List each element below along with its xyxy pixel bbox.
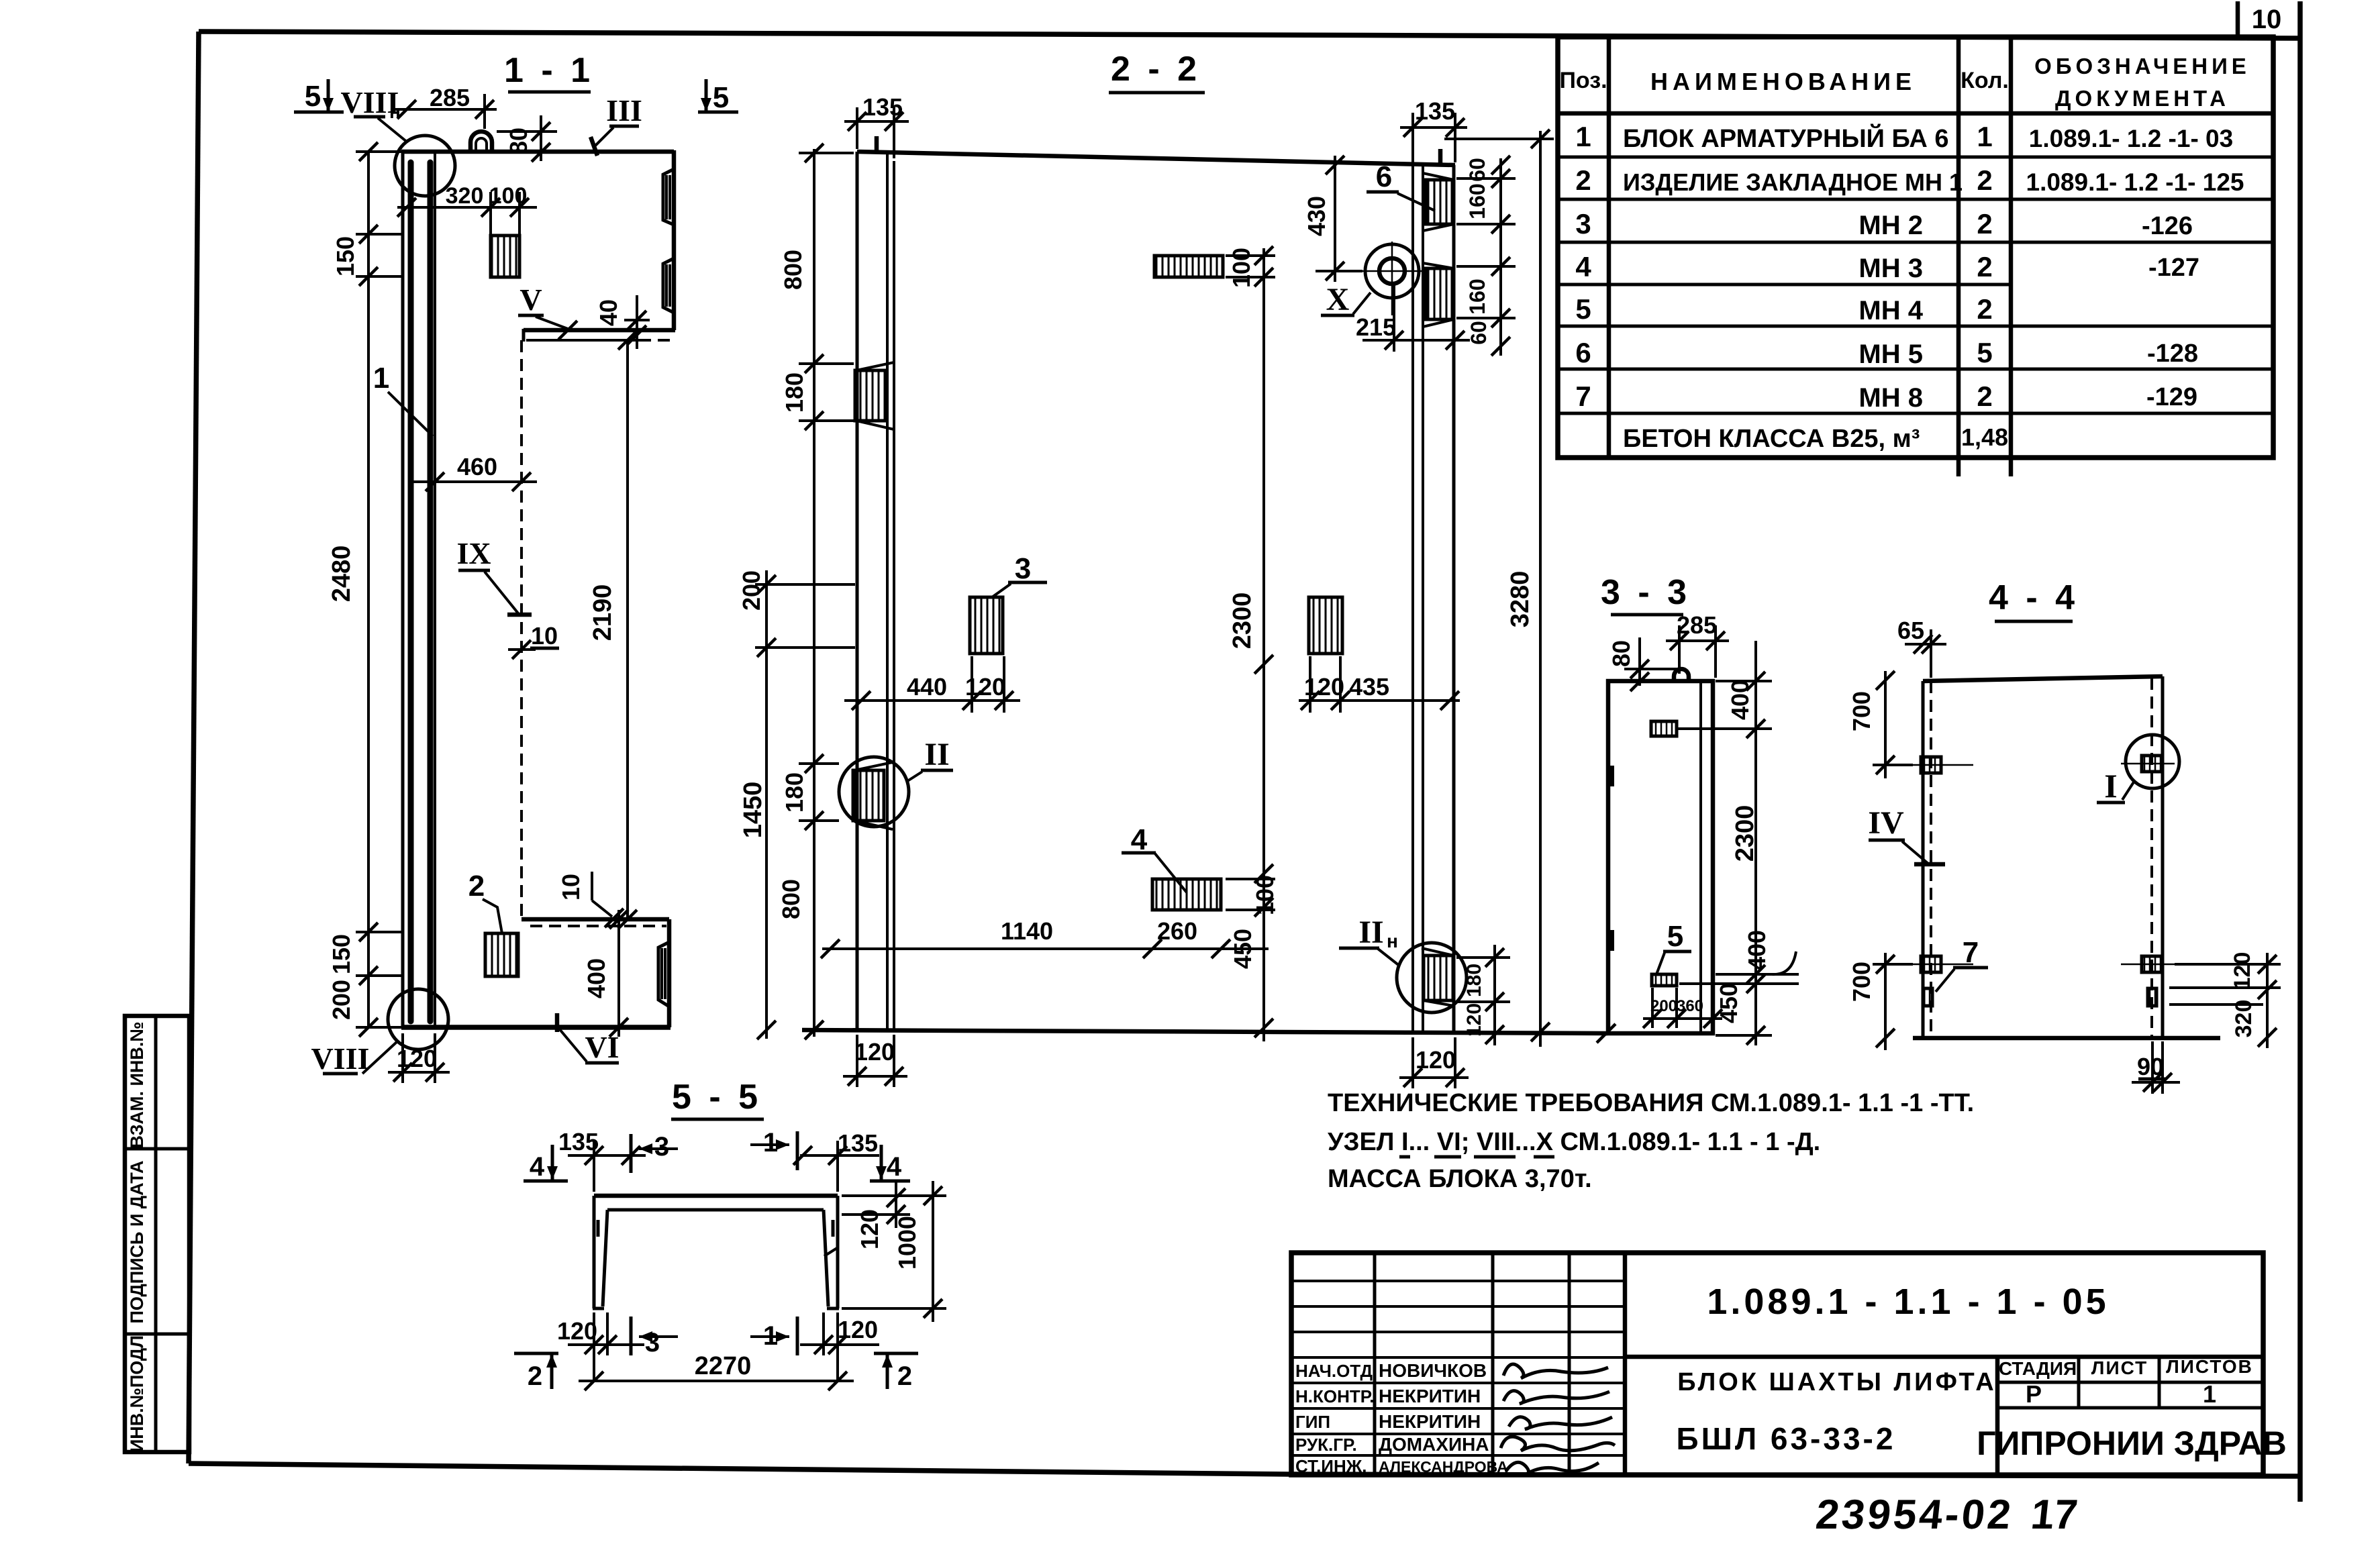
svg-text:65: 65 [1897,617,1924,644]
edge plate mark 3-3 lower [1607,930,1614,951]
section mark 1 top 5-5 [750,1128,797,1170]
hidden line right 4-4 [2150,678,2153,1038]
svg-text:СТАДИЯ: СТАДИЯ [1999,1358,2077,1379]
left wall inner line b [893,161,895,1030]
top edge 2-2 [857,152,1455,165]
svg-text:60: 60 [1467,321,1491,345]
svg-text:РУК.ГР.: РУК.ГР. [1295,1435,1357,1455]
svg-text:II: II [1358,915,1383,950]
dimension 2480 left [328,142,401,1037]
node label IX [456,536,532,615]
right wall outer line right [1452,165,1456,1033]
svg-text:1: 1 [1575,121,1591,152]
left inner dim chain 800 [779,144,854,1037]
svg-text:НОВИЧКОВ: НОВИЧКОВ [1379,1360,1487,1381]
svg-text:БШЛ 63-33-2: БШЛ 63-33-2 [1677,1421,1896,1456]
svg-text:2: 2 [897,1361,912,1391]
svg-text:40: 40 [595,299,622,326]
svg-text:1 - 1: 1 - 1 [504,51,594,90]
svg-text:2300: 2300 [1228,592,1256,650]
svg-text:МН 5: МН 5 [1858,340,1923,369]
bottom block top edge [522,917,669,922]
svg-text:БЛОК ШАХТЫ ЛИФТА: БЛОК ШАХТЫ ЛИФТА [1677,1368,1997,1396]
section mark 3 top 5-5 [631,1132,678,1173]
dimension 90 bottom 4-4 [2132,1041,2180,1094]
lifting loop top [470,132,492,152]
svg-text:120: 120 [1463,1003,1485,1037]
svg-text:VI: VI [585,1030,619,1064]
svg-text:135: 135 [838,1129,878,1157]
embedded plate 3-3 top [1651,721,1677,736]
svg-text:1450: 1450 [739,782,767,839]
label 4 leader [1122,823,1187,892]
node label V [518,282,577,340]
svg-text:НЕКРИТИН: НЕКРИТИН [1379,1411,1481,1432]
svg-text:6: 6 [1575,337,1591,368]
dimension 10 joint upper [508,622,559,659]
node label X [1321,282,1371,317]
svg-text:4 - 4: 4 - 4 [1989,578,2079,617]
svg-text:200: 200 [328,980,355,1020]
right dim chain 3-3: 400 2300 400 450 [1678,641,1799,1045]
svg-text:460: 460 [457,453,497,480]
dimension 80 3-3 [1607,637,1678,691]
anchor small mark lower right [2148,988,2156,1006]
dimension 285 3-3 [1666,611,1729,678]
svg-text:150: 150 [328,934,355,974]
svg-text:МН 3: МН 3 [1858,254,1923,283]
view 1-1 title [504,51,594,92]
embedded plate 3-3 bottom [1652,974,1677,986]
svg-text:4: 4 [887,1152,902,1182]
right wall dim chain 60 160 160 60 [1456,156,1516,356]
dimension 135 top left 5-5 [558,1128,646,1192]
lifting loop 3-3 [1674,669,1689,681]
dimension 100 top middle [1226,246,1275,288]
svg-text:5: 5 [1977,337,1992,368]
svg-text:ДОМАХИНА: ДОМАХИНА [1379,1434,1489,1455]
node label VI bottom [557,1013,619,1064]
svg-text:X: X [1326,282,1350,317]
svg-text:ТЕХНИЧЕСКИЕ ТРЕБОВАНИЯ С: ТЕХНИЧЕСКИЕ ТРЕБОВАНИЯ СМ.1.089.1- 1.1 -… [1328,1089,1974,1117]
hidden joint dashed horizontal top [526,339,673,342]
dimension 120 320 right 4-4 [2169,952,2281,1048]
embedded plate 3 right field [1309,597,1342,654]
top edge 1-1 [401,150,674,154]
long dim line 2300/450 [1228,248,1273,1041]
leg notch right 5-5 [824,1248,837,1256]
node label III top [591,93,642,156]
dimension 120 bottom right 5-5 [800,1312,879,1382]
dimension 1140 260 bottom [821,917,1269,958]
svg-text:120: 120 [854,1038,895,1066]
node label VIII-n top [341,85,407,142]
svg-text:1,48: 1,48 [1961,423,2008,451]
svg-text:IV: IV [1868,805,1904,841]
svg-text:ПОДПИСЬ И ДАТА: ПОДПИСЬ И ДАТА [127,1160,147,1323]
table row 2 [1575,164,2244,196]
svg-text:5: 5 [713,81,729,114]
node circle VIII top [395,136,455,196]
svg-text:285: 285 [430,84,470,111]
svg-text:2: 2 [1977,293,1992,325]
groove notch top block lower [663,258,674,313]
svg-text:БЕТОН КЛАССА В25, м³: БЕТОН КЛАССА В25, м³ [1623,425,1920,453]
svg-text:ЛИСТ: ЛИСТ [2091,1357,2148,1378]
svg-text:10: 10 [557,874,585,900]
svg-text:435: 435 [1349,673,1389,701]
dimension 285 top [395,84,497,129]
title block stage header [1999,1356,2253,1408]
left inner dim 180 [781,364,854,430]
groove notch bottom block [658,942,669,1007]
left outer dim 200 [738,570,855,1039]
left wall inner line a [886,152,889,1030]
svg-text:120: 120 [2230,952,2255,990]
view 4-4 title [1989,578,2079,621]
signature table labels [1295,1361,1377,1476]
svg-text:1000: 1000 [893,1216,921,1270]
svg-text:3: 3 [1015,552,1031,585]
svg-text:АЛЕКСАНДРОВА: АЛЕКСАНДРОВА [1379,1458,1508,1476]
dimension 40 step [595,295,650,349]
svg-text:180: 180 [781,772,808,813]
svg-text:НАЧ.ОТД.: НАЧ.ОТД. [1295,1361,1377,1381]
parts table top right [1558,37,2273,476]
svg-text:ГИП: ГИП [1295,1412,1330,1432]
svg-text:2: 2 [1977,208,1992,240]
embedded plate top middle [1154,256,1223,277]
svg-text:V: V [519,282,542,317]
table row 3 [1575,208,2193,240]
dimension 120 435 right [1299,656,1460,713]
svg-text:МН 4: МН 4 [1858,296,1923,325]
section mark 2 bottom right 5-5 [874,1353,918,1391]
bottom block dashed top [530,925,666,927]
left inner dim 800 lower [777,879,824,1039]
embedded plate 4 bottom middle [1152,879,1221,910]
anchor bolt lower left 4-4 [1910,956,1973,972]
dimension 700 top 4-4 [1848,671,1913,778]
svg-text:ИНВ.№ПОДЛ: ИНВ.№ПОДЛ [127,1335,147,1452]
dimension 150 bottom left [328,923,401,1027]
view 2-2 title [1109,50,1205,93]
dimension 65 4-4 [1897,617,1946,678]
label 7 leader [1936,936,1988,992]
section mark 5 down-left [294,79,344,113]
left outer dim 1450 [739,782,776,1039]
svg-text:3280: 3280 [1506,571,1534,628]
svg-text:III: III [606,93,642,127]
node circle II [839,757,909,827]
svg-text:320: 320 [446,183,484,209]
dimension 135 top right 5-5 [793,1129,879,1192]
svg-text:450: 450 [1715,983,1742,1023]
embedded plate top (pos 3) [491,236,519,277]
dimension 200 bottom left [328,980,401,1027]
svg-text:400: 400 [583,958,610,998]
node label I [2097,767,2134,805]
section mark 4 top left 5-5 [524,1145,568,1182]
svg-text:5 - 5: 5 - 5 [672,1078,762,1117]
top block right edge [672,150,677,330]
section mark 1 bottom 5-5 [750,1317,797,1355]
dim 100 plate4 [1226,875,1279,917]
anchor small mark lower left [1924,988,1932,1006]
svg-text:II: II [924,737,949,772]
svg-text:IX: IX [456,536,491,570]
left inner dim 180 lower [781,754,839,830]
node label II-n [1339,915,1400,966]
svg-text:23954-02: 23954-02 [1814,1492,2016,1538]
table row 4 [1575,251,2199,283]
svg-text:Н.КОНТР.: Н.КОНТР. [1295,1386,1374,1406]
dimension 460 [413,453,537,491]
label 1 rebar leader [373,362,433,436]
rebar line 1 [408,162,414,1021]
top block bottom edge [524,328,675,333]
section mark 3 bottom 5-5 [631,1317,678,1357]
svg-text:2: 2 [1977,380,1992,412]
node circle VIII bottom [388,989,448,1049]
svg-text:ЛИСТОВ: ЛИСТОВ [2166,1356,2253,1377]
dimension 200 360 3-3 [1643,988,1722,1028]
overall dim 3280 [1444,130,1554,1047]
svg-text:2480: 2480 [328,546,356,603]
embedded plates right wall upper pair [1423,173,1454,231]
embedded plate left wall upper [855,362,894,429]
dimension 320 100 [397,183,537,235]
dimension 10 joint lower [557,872,624,927]
dimension 120 below left wall 2-2 [843,1035,907,1087]
svg-text:440: 440 [907,673,947,701]
label 5 leader 3-3 [1656,920,1691,974]
table row 5 [1575,293,1992,325]
svg-text:100: 100 [1228,248,1255,288]
embedded plate right wall bottom (node II-n) [1422,948,1454,1006]
svg-text:Р: Р [2026,1380,2042,1408]
wall inner face line 1-1 [434,152,436,1027]
svg-text:ОБОЗНАЧЕНИЕ: ОБОЗНАЧЕНИЕ [2034,54,2250,79]
svg-text:МН 2: МН 2 [1858,211,1923,240]
svg-text:10: 10 [2252,5,2282,34]
svg-text:1140: 1140 [1001,917,1053,945]
hole circle node X [1361,242,1424,315]
svg-text:120: 120 [557,1317,597,1345]
bottom edge 2-2 [802,1030,1607,1033]
svg-text:1: 1 [763,1128,778,1157]
svg-text:НЕКРИТИН: НЕКРИТИН [1379,1386,1481,1406]
table row 1 [1575,121,2233,153]
svg-text:-128: -128 [2147,340,2198,368]
part outline 4-4 [1913,676,2220,1038]
embedded plate 3 left field [970,597,1003,654]
dimension 1000 right 5-5 [842,1181,946,1322]
svg-text:5: 5 [1667,920,1683,953]
svg-text:3 - 3: 3 - 3 [1601,573,1691,612]
svg-text:БЛОК АРМАТУРНЫЙ БА 6: БЛОК АРМАТУРНЫЙ БА 6 [1623,123,1949,153]
svg-text:2: 2 [1575,164,1591,196]
svg-text:НАИМЕНОВАНИЕ: НАИМЕНОВАНИЕ [1650,68,1916,95]
signature table names [1379,1360,1508,1476]
svg-text:1.089.1- 1.2 -1- 03: 1.089.1- 1.2 -1- 03 [2029,125,2233,152]
step edge small [522,329,526,342]
svg-text:80: 80 [1607,640,1635,667]
svg-text:I: I [2104,767,2117,805]
dim 450 bottom right [1229,929,1273,1037]
svg-text:5: 5 [1575,293,1591,325]
handwritten document number bottom [1814,1492,2080,1538]
embedded plate bottom (pos 2) [485,933,518,976]
svg-text:150: 150 [332,236,359,276]
channel section outline 5-5 [593,1196,839,1308]
svg-text:5: 5 [305,80,321,113]
wall outer face line 1-1 [401,152,405,1027]
embedded plate left wall lower (node II) [853,762,893,829]
svg-text:3: 3 [654,1132,669,1162]
dimension 150 top left [332,221,401,289]
svg-text:10: 10 [531,622,558,650]
svg-text:МН 8: МН 8 [1858,383,1923,413]
dimension 120 bottom left 5-5 [557,1312,644,1382]
leg mark right 5-5 [832,1220,835,1237]
signatures squiggles [1501,1364,1615,1475]
dimension 430 right wall [1303,156,1362,282]
label 2 plate leader [468,870,502,933]
svg-text:2 - 2: 2 - 2 [1111,50,1201,89]
svg-text:Кол.: Кол. [1961,68,2009,93]
svg-text:н: н [1387,931,1398,951]
view 5-5 title [671,1078,764,1119]
svg-text:МАССА БЛОКА 3,70т.: МАССА БЛОКА 3,70т. [1328,1165,1592,1193]
dimension 440 120 left [844,656,1020,713]
title block [1291,1253,2263,1475]
svg-text:1.089.1- 1.2 -1- 125: 1.089.1- 1.2 -1- 125 [2026,168,2244,196]
dimension 2190 right of view [537,331,639,929]
svg-text:ГИПРОНИИ ЗДРАВ: ГИПРОНИИ ЗДРАВ [1977,1425,2287,1462]
dimension 135 right wall [1400,97,1467,162]
svg-text:VIII: VIII [311,1041,370,1076]
svg-text:800: 800 [779,250,807,290]
svg-text:7: 7 [1575,380,1591,412]
svg-text:2: 2 [1977,164,1992,196]
svg-text:2: 2 [1977,251,1992,282]
svg-text:2: 2 [528,1361,542,1391]
bottom block right edge [667,919,672,1027]
node circle II-n [1397,943,1467,1013]
rebar line 2 [428,162,434,1021]
svg-text:3: 3 [1575,208,1591,240]
svg-text:285: 285 [1677,611,1717,639]
svg-text:2270: 2270 [695,1352,752,1380]
svg-text:260: 260 [1157,917,1197,945]
technical notes line 2 [1328,1128,1820,1157]
anchor bolt lower right 4-4 [2121,956,2175,972]
bottom edge 1-1 [401,1025,671,1030]
edge plate mark 3-3 upper [1607,766,1614,786]
dimension 215 [1356,282,1470,352]
svg-text:-127: -127 [2148,254,2199,282]
part outline 3-3 [1608,681,1713,1033]
svg-text:200: 200 [1650,997,1677,1015]
left stamp boxes column [125,1016,189,1452]
svg-text:-126: -126 [2142,212,2193,240]
section mark 4 top right 5-5 [870,1145,910,1182]
dowel bar left wall top [875,136,879,153]
node label II [907,737,953,781]
anchor bolt upper right 4-4 with node I [2121,756,2175,772]
svg-text:ВЗАМ. ИНВ.№: ВЗАМ. ИНВ.№ [127,1021,147,1148]
groove notch top block upper [663,169,674,225]
dimension 400 bottom block [583,910,628,1037]
anchor bolt upper left 4-4 [1910,757,1973,773]
table row 7 [1575,380,2197,413]
hidden joint dashed vertical [520,340,523,919]
section mark 5 down-right [698,79,738,114]
svg-text:6: 6 [1376,160,1392,193]
right wall bottom dims 180 120 [1456,945,1510,1045]
dimension 700 bottom 4-4 [1848,953,1913,1050]
right wall outer line left [1411,165,1414,1033]
svg-text:430: 430 [1303,196,1330,236]
page number box top right [2238,1,2281,38]
svg-text:800: 800 [777,879,805,919]
svg-text:4: 4 [530,1152,545,1182]
svg-text:ДОКУМЕНТА: ДОКУМЕНТА [2055,86,2230,111]
right wall line mid [1422,165,1424,1033]
svg-text:-129: -129 [2146,383,2197,411]
dimension 120 below right wall 2-2 [1399,1037,1469,1088]
svg-text:2: 2 [468,870,485,903]
svg-text:1: 1 [373,362,389,395]
table header [1559,54,2250,111]
svg-text:2190: 2190 [589,584,617,641]
node label VIII bottom [311,1041,397,1076]
label 3 leader [992,552,1047,597]
ticks on bottom edge 2-2 [805,1021,1616,1043]
svg-text:1: 1 [1977,121,1992,152]
svg-text:180: 180 [781,372,808,413]
svg-text:СТ.ИНЖ.: СТ.ИНЖ. [1295,1456,1367,1476]
dimension 80 loop [497,115,557,162]
svg-text:17: 17 [2029,1492,2080,1538]
dimension 120 bottom 1-1 [388,1033,450,1083]
svg-text:160: 160 [1465,183,1489,219]
table row 6 [1575,337,2198,369]
node circle I [2126,735,2179,788]
svg-text:215: 215 [1356,313,1396,341]
svg-text:700: 700 [1848,691,1875,731]
label 6 leader [1367,160,1435,211]
dimension 120 right 5-5 [842,1181,910,1249]
dimension 2270 bottom 5-5 [579,1352,854,1390]
view 3-3 title [1601,573,1691,615]
inner face line 3-3 [1699,681,1702,1033]
section mark 2 bottom left 5-5 [514,1353,558,1391]
svg-text:700: 700 [1848,962,1875,1002]
dimension 135 left wall [844,93,909,158]
leg mark left 5-5 [597,1220,600,1237]
svg-text:ИЗДЕЛИЕ ЗАКЛАДНОЕ МН 1: ИЗДЕЛИЕ ЗАКЛАДНОЕ МН 1 [1623,168,1963,196]
left wall outer line [856,152,859,1030]
svg-text:Поз.: Поз. [1559,68,1607,93]
svg-text:1.089.1 - 1.1 - 1 - 05: 1.089.1 - 1.1 - 1 - 05 [1707,1282,2109,1322]
svg-text:4: 4 [1575,251,1591,282]
hidden line left 4-4 [1930,681,1932,1038]
dowel bar right wall top [1438,149,1443,166]
svg-text:УЗЕЛ I... VI; VIII...X СМ.1.: УЗЕЛ I... VI; VIII...X СМ.1.089.1- 1.1 -… [1328,1128,1820,1156]
svg-text:7: 7 [1963,936,1979,969]
